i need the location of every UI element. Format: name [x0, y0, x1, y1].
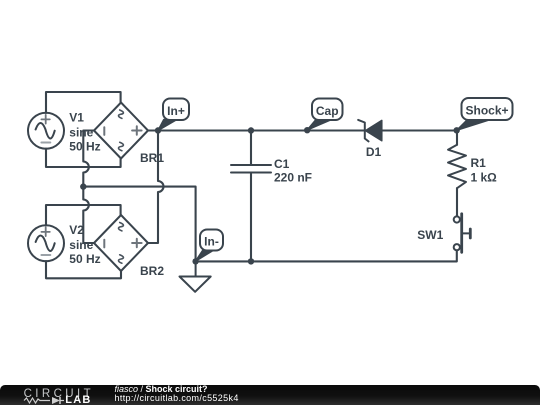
svg-text:1 kΩ: 1 kΩ [471, 171, 498, 185]
svg-text:BR1: BR1 [140, 151, 164, 165]
wire C1 top lead [250, 131, 252, 166]
flag In+ [158, 99, 189, 131]
flag Cap [307, 99, 342, 131]
node C1 top junction dot [248, 127, 254, 133]
svg-text:Cap: Cap [316, 104, 339, 118]
zener diode D1 [358, 120, 382, 159]
CircuitLab logo [0, 385, 110, 405]
ground [180, 261, 211, 291]
svg-text:LAB: LAB [65, 394, 91, 405]
svg-text:sine: sine [69, 238, 93, 252]
node Cap junction dot [304, 127, 310, 133]
node In- junction dot [192, 258, 198, 264]
svg-text:V2: V2 [69, 223, 84, 237]
bridge rectifier BR1 [94, 103, 164, 166]
voltage source V2 [28, 223, 101, 266]
svg-text:sine: sine [69, 125, 93, 139]
wire Shock+ node to R1 [456, 131, 458, 145]
wire BR1 minus down to BR2 minus with hops [83, 131, 94, 244]
footer bar [0, 385, 540, 405]
svg-text:D1: D1 [366, 145, 382, 159]
svg-text:In+: In+ [167, 104, 185, 118]
wire V1 bottom to BR1 bottom (crossed by minus bus) [46, 149, 121, 167]
svg-text:BR2: BR2 [140, 264, 164, 278]
bridge rectifier BR2 [94, 215, 164, 278]
wire V2 top to BR2 top [46, 205, 121, 225]
node Shock+ junction dot [454, 127, 460, 133]
wire V2 bottom to BR2 bottom [46, 261, 121, 278]
wire R1 to SW1 [456, 188, 458, 216]
node In+ junction dot [155, 127, 161, 133]
wire BR1 plus to In+ node [148, 129, 158, 131]
switch SW1 [417, 214, 470, 253]
footer title text [115, 385, 239, 404]
voltage source V1 [28, 111, 101, 154]
wire V1 top to BR1 top [46, 92, 121, 113]
wire ground rail In- to SW1 [196, 250, 457, 261]
svg-text:50 Hz: 50 Hz [69, 252, 100, 266]
capacitor C1 [231, 157, 312, 185]
resistor R1 [448, 145, 497, 188]
svg-text:C1: C1 [274, 157, 290, 171]
svg-text:Shock+: Shock+ [465, 104, 508, 118]
svg-text:220 nF: 220 nF [274, 171, 312, 185]
wire minus bus to In- node [83, 187, 195, 262]
svg-text:50 Hz: 50 Hz [69, 140, 100, 154]
svg-text:R1: R1 [471, 156, 487, 170]
svg-text:In-: In- [204, 234, 219, 248]
node minus bus junction dot [80, 183, 86, 189]
flag In- [196, 230, 224, 262]
wire In+ node down to BR2 plus with hop [148, 131, 164, 244]
wire main rail In+ to Shock+ [158, 129, 457, 131]
node C1 bottom junction dot [248, 258, 254, 264]
svg-text:V1: V1 [69, 111, 84, 125]
flag Shock+ [457, 98, 513, 130]
svg-text:SW1: SW1 [417, 228, 443, 242]
wire C1 bottom lead [250, 173, 252, 262]
